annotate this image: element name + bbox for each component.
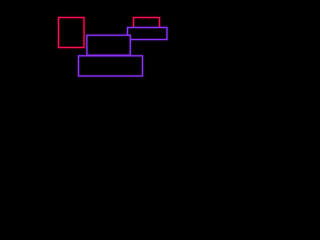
red square (left) xyxy=(59,18,85,48)
red rectangle (top right) xyxy=(134,18,160,32)
purple rectangle (top right) xyxy=(128,28,168,40)
purple rectangle (bottom large) xyxy=(79,56,143,76)
purple rectangle (middle) xyxy=(87,35,130,55)
